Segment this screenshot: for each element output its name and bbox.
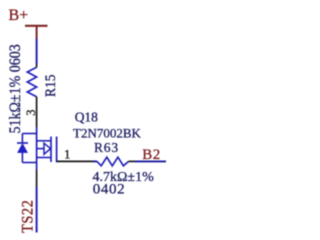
wire R63 to B2 [135,160,167,162]
Q18 substrate arrow [44,143,51,154]
svg-text:1: 1 [64,147,71,162]
body diode triangle [18,144,28,153]
R15 bottom pin / Q18 drain pin [36,97,38,127]
Q18 gate pin [57,160,93,162]
Q18 substrate stub [37,148,44,150]
svg-text:T2N7002BK: T2N7002BK [73,125,142,140]
Q18 top link to body diode [22,133,36,135]
Q18 channel bar [50,137,52,163]
svg-text:0402: 0402 [93,181,125,197]
svg-text:3: 3 [24,110,38,116]
resistor R15 [27,67,36,96]
Q18 bottom link to body diode [22,162,36,164]
wire gate to R63 [93,160,97,162]
transistor Q18 spine [36,127,38,170]
Q18 drain stub [37,140,51,142]
svg-text:B+: B+ [9,7,29,24]
body diode anode lead [21,153,23,163]
body diode cathode lead [21,134,23,144]
resistor R63 [97,157,129,166]
svg-text:B2: B2 [142,147,161,163]
Q18 gate bar [56,137,59,162]
Q18 source pin [36,170,38,187]
svg-text:Q18: Q18 [75,109,98,124]
svg-text:R15: R15 [43,74,60,97]
svg-text:R63: R63 [94,140,119,155]
svg-text:TS22: TS22 [19,200,37,233]
svg-text:51kΩ±1% 0603: 51kΩ±1% 0603 [7,44,24,133]
wire source to TS22 [36,187,38,233]
Q18 source stub [37,157,51,159]
power port bar [25,25,48,27]
R63 right pin [129,160,135,162]
wire B+ to R15 [36,39,38,64]
power port stem [36,26,38,39]
body diode cathode bar [17,142,28,144]
R15 top pin [36,64,38,68]
